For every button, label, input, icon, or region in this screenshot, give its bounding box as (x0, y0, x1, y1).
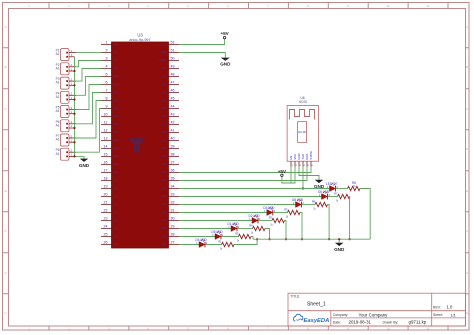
wire R6 to GND bus (360, 189, 370, 240)
U3 pin 21 (101, 201, 119, 207)
wire LED GND bus (253, 238, 370, 240)
U3 pin 34 (161, 185, 179, 191)
svg-text:25: 25 (104, 233, 108, 237)
U3 pin 24 (101, 225, 119, 231)
svg-text:D1 LED: D1 LED (228, 222, 240, 226)
connector P6 (56, 120, 76, 132)
svg-text:19: 19 (104, 185, 108, 189)
svg-text:D6 LED: D6 LED (318, 190, 330, 194)
svg-text:8: 8 (106, 97, 108, 101)
junction bus GND (338, 238, 340, 240)
svg-text:EasyEDA: EasyEDA (304, 318, 330, 324)
wire U3 pin 52 to +5V (179, 39, 225, 45)
wire U3 pin 32 to D8 (179, 204, 296, 206)
wire R2 to GND bus (285, 221, 287, 240)
wire P5.2 to U3 pin 6 (76, 85, 101, 110)
svg-text:44: 44 (171, 105, 175, 109)
svg-text:PE0: PE0 (113, 43, 119, 47)
svg-text:A: A (5, 25, 7, 29)
svg-text:PK4: PK4 (161, 163, 167, 167)
U6 pin 1 EN (289, 156, 294, 167)
U3 pin 32 (161, 201, 179, 207)
wire P6.2 to U3 pin 7 (76, 93, 101, 124)
resistor R7 (334, 191, 350, 202)
resistor R2 (269, 215, 285, 226)
svg-text:PH3: PH3 (113, 107, 119, 111)
U3 pin 39 (161, 145, 179, 151)
module U6 HC05 body (287, 106, 319, 162)
svg-text:PK3: PK3 (161, 155, 167, 159)
svg-text:18: 18 (104, 177, 108, 181)
svg-text:49: 49 (171, 65, 175, 69)
svg-text:51: 51 (171, 49, 175, 53)
svg-text:HC-05: HC-05 (298, 130, 306, 134)
resistor R4 (249, 223, 265, 234)
wire D3 to R3 (273, 212, 288, 214)
wire U3 pin 34 to D7 (179, 188, 330, 190)
U6 designator label (299, 96, 307, 104)
svg-text:PC1: PC1 (113, 195, 119, 199)
svg-text:9: 9 (106, 105, 108, 109)
U3 pin 33 (161, 193, 179, 199)
svg-text:PC7: PC7 (113, 243, 119, 247)
svg-text:17: 17 (104, 169, 108, 173)
svg-text:D8 LED: D8 LED (292, 198, 304, 202)
LED D8 (292, 198, 305, 207)
svg-text:PK5: PK5 (161, 171, 167, 175)
U3 pin 11 (101, 121, 119, 127)
svg-text:23: 23 (104, 217, 108, 221)
U3 pin 36 (161, 169, 179, 175)
svg-text:PA2: PA2 (162, 243, 168, 247)
U3 pin 17 (101, 169, 119, 175)
svg-text:26: 26 (104, 241, 108, 245)
svg-text:PD0: PD0 (161, 195, 167, 199)
svg-text:PC2: PC2 (113, 203, 119, 207)
svg-text:PK6: PK6 (161, 179, 167, 183)
svg-text:Sheet:: Sheet: (433, 313, 443, 317)
svg-text:Your Company: Your Company (359, 312, 389, 317)
svg-text:U3: U3 (137, 32, 143, 37)
svg-text:PH4: PH4 (113, 115, 119, 119)
svg-text:A1: A1 (56, 138, 60, 142)
op IC U3 body (112, 42, 169, 248)
connector P3 (56, 77, 76, 89)
U3 pin 52 (161, 41, 179, 47)
svg-text:R4: R4 (249, 223, 253, 227)
wire R4 to GND bus (265, 229, 270, 240)
svg-text:10: 10 (104, 113, 108, 117)
wire D4 to R1 (205, 244, 222, 246)
U3 pin 38 (161, 153, 179, 159)
U3 pin 16 (101, 161, 119, 167)
svg-text:TITLE:: TITLE: (291, 295, 301, 299)
junction connector bus y=71 (73, 70, 75, 72)
svg-text:REV:: REV: (433, 305, 441, 309)
U3 pin 4 (101, 65, 119, 71)
svg-text:PB5: PB5 (113, 147, 119, 151)
junction bus x=257 (256, 238, 258, 240)
U3 pin 41 (161, 129, 179, 135)
svg-text:2019-08-31: 2019-08-31 (349, 320, 372, 325)
svg-text:PC4: PC4 (113, 219, 119, 223)
svg-text:33: 33 (171, 193, 175, 197)
svg-text:PF0: PF0 (161, 67, 167, 71)
svg-text:35: 35 (171, 177, 175, 181)
svg-text:H: H (4, 311, 6, 315)
svg-text:R3: R3 (284, 207, 288, 211)
svg-text:48: 48 (171, 73, 175, 77)
svg-text:15: 15 (104, 153, 108, 157)
svg-text:PK7: PK7 (161, 187, 167, 191)
U3 pin 30 (161, 217, 179, 223)
svg-text:STATE: STATE (309, 151, 313, 160)
svg-text:21: 21 (104, 201, 108, 205)
svg-text:PH0: PH0 (113, 91, 119, 95)
svg-text:A1: A1 (56, 152, 60, 156)
wire D8 to R8 (302, 204, 316, 206)
svg-text:F: F (5, 229, 7, 233)
wire R3 to GND bus (300, 213, 302, 240)
svg-text:PK2: PK2 (161, 147, 167, 151)
junction bus x=329 (328, 238, 330, 240)
U3 pin 1 (101, 41, 119, 47)
svg-text:D4 LED: D4 LED (196, 238, 208, 242)
svg-text:A: A (466, 25, 468, 29)
svg-text:PC6: PC6 (113, 235, 119, 239)
U6 pin 2 VCC (293, 154, 298, 167)
svg-text:PK1: PK1 (161, 139, 167, 143)
svg-text:VCC: VCC (161, 43, 168, 47)
U3 pin 31 (161, 209, 179, 215)
U3 designator label (129, 32, 150, 41)
svg-text:GND: GND (220, 61, 231, 66)
U3 pin 5 (101, 73, 119, 79)
U3 pin 14 (101, 145, 119, 151)
U3 pin 8 (101, 97, 119, 103)
U3 pin 20 (101, 193, 119, 199)
wire U3 pin 35 to U6 RXD (179, 167, 307, 181)
svg-text:Company:: Company: (333, 313, 349, 317)
connector P8 (56, 148, 76, 160)
wire GND bus of connectors (75, 57, 85, 159)
wire U6 GND to ground (299, 167, 319, 180)
svg-text:PE4: PE4 (113, 75, 119, 79)
junction bus x=270 (268, 238, 270, 240)
resistor R8 (312, 199, 328, 210)
svg-text:31: 31 (171, 209, 175, 213)
U3 pin 13 (101, 137, 119, 143)
junction connector bus y=114 (73, 113, 75, 115)
svg-text:PH6: PH6 (113, 131, 119, 135)
svg-text:43: 43 (171, 113, 175, 117)
wire D5 to R5 (221, 236, 239, 238)
svg-text:E: E (466, 189, 468, 193)
U3 pin 45 (161, 97, 179, 103)
svg-text:47: 47 (171, 81, 175, 85)
svg-text:PH5: PH5 (113, 123, 119, 127)
svg-text:11: 11 (427, 4, 430, 8)
U3 pin 47 (161, 81, 179, 87)
svg-text:R8: R8 (312, 199, 316, 203)
LED D5 (212, 230, 225, 239)
ground flag bottom right (334, 243, 345, 252)
svg-text:PE1: PE1 (113, 51, 119, 55)
svg-text:PA0: PA0 (162, 227, 168, 231)
U3 pin 40 (161, 137, 179, 143)
junction connector bus y=99 (73, 98, 75, 100)
wire +5V to U6 VCC (282, 167, 295, 184)
junction bus x=286 (285, 238, 287, 240)
svg-text:24: 24 (104, 225, 108, 229)
U3 pin 10 (101, 113, 119, 119)
wire R5 to GND bus jog (251, 237, 253, 240)
svg-text:PF1: PF1 (161, 75, 167, 79)
svg-text:PF3: PF3 (161, 91, 167, 95)
svg-text:A1: A1 (56, 52, 60, 56)
wire U3 pin 29 to D1 (179, 228, 231, 230)
svg-text:2: 2 (106, 49, 108, 53)
svg-text:B: B (5, 65, 7, 69)
U3 pin 23 (101, 217, 119, 223)
svg-text:R7: R7 (334, 191, 338, 195)
svg-text:PB7: PB7 (113, 163, 119, 167)
connector P5 (56, 106, 76, 118)
svg-text:10: 10 (386, 327, 390, 331)
LED D7 (326, 182, 339, 191)
junction connector bus y=142 (73, 141, 75, 143)
svg-text:D2 LED: D2 LED (249, 214, 261, 218)
junction connector bus y=85 (73, 84, 75, 86)
U6 pin 5 RXD (305, 154, 310, 167)
+5V net flag top (220, 31, 229, 39)
svg-text:G: G (4, 271, 6, 275)
resistor R6 (348, 181, 361, 191)
svg-text:34: 34 (171, 185, 175, 189)
svg-text:1.0: 1.0 (447, 305, 453, 310)
svg-text:PH1: PH1 (113, 99, 119, 103)
svg-text:22: 22 (104, 209, 108, 213)
svg-text:HC05: HC05 (299, 100, 307, 104)
U3 pin 7 (101, 89, 119, 95)
svg-text:PC5: PC5 (113, 227, 119, 231)
svg-text:A1: A1 (56, 109, 60, 113)
svg-text:R5: R5 (235, 231, 239, 235)
svg-text:+5V: +5V (220, 31, 229, 36)
wire P1.2 to U3 pin 2 (76, 52, 101, 54)
svg-text:PB6: PB6 (113, 155, 119, 159)
svg-text:3: 3 (106, 57, 108, 61)
svg-text:10: 10 (386, 4, 390, 8)
svg-text:PJ1: PJ1 (113, 179, 119, 183)
svg-text:42: 42 (171, 121, 175, 125)
svg-text:PF6: PF6 (161, 115, 167, 119)
U3 pin 9 (101, 105, 119, 111)
svg-text:AREF: AREF (159, 59, 167, 63)
U3 pin 3 (101, 57, 119, 63)
resistor R5 (235, 231, 251, 242)
wire U3 pin 28 to D5 (179, 236, 215, 238)
svg-text:32: 32 (171, 201, 175, 205)
svg-text:D5 LED: D5 LED (212, 230, 224, 234)
U3 pin 22 (101, 209, 119, 215)
svg-text:46: 46 (171, 89, 175, 93)
ground flag at U6 (314, 180, 325, 189)
junction connector bus y=156 (73, 155, 75, 157)
svg-text:38: 38 (171, 153, 175, 157)
U3 pin 43 (161, 113, 179, 119)
svg-text:B: B (466, 65, 468, 69)
U3 pin 48 (161, 73, 179, 79)
svg-text:H: H (466, 311, 468, 315)
wire P8.2 to U3 pin 9 (76, 109, 101, 153)
wire U3 pin 30 to D2 (179, 220, 252, 222)
ground flag top right (220, 58, 231, 67)
svg-text:PF4: PF4 (161, 99, 167, 103)
svg-text:C: C (466, 107, 468, 111)
svg-text:Sheet_1: Sheet_1 (307, 302, 326, 308)
svg-text:PD1: PD1 (161, 203, 167, 207)
junction connector bus y=128 (73, 127, 75, 129)
U3 pin 6 (101, 81, 119, 87)
svg-text:14: 14 (104, 145, 108, 149)
EasyEDA logo (294, 314, 330, 324)
svg-text:A1: A1 (56, 123, 60, 127)
svg-text:PF2: PF2 (161, 83, 167, 87)
svg-text:PF7: PF7 (161, 123, 167, 127)
title block (288, 293, 466, 326)
svg-text:PE5: PE5 (113, 83, 119, 87)
svg-text:PB4: PB4 (113, 139, 119, 143)
wire GND stub of bus (338, 239, 340, 243)
svg-text:52: 52 (171, 41, 175, 45)
svg-text:13: 13 (104, 137, 108, 141)
svg-text:Drawn By:: Drawn By: (383, 320, 399, 324)
svg-text:45: 45 (171, 97, 175, 101)
U3 pin 2 (101, 49, 119, 55)
wire P2.2 to U3 pin 3 (76, 61, 101, 67)
svg-text:D: D (4, 147, 6, 151)
svg-text:12: 12 (104, 129, 108, 133)
svg-text:16: 16 (104, 161, 108, 165)
svg-text:39: 39 (171, 145, 175, 149)
svg-text:37: 37 (171, 161, 175, 165)
svg-text:LED D7: LED D7 (326, 182, 337, 186)
svg-text:GND: GND (79, 163, 90, 168)
U3 pin 19 (101, 185, 119, 191)
U3 pin 50 (159, 57, 179, 63)
svg-text:28: 28 (171, 233, 175, 237)
U3 pin 15 (101, 153, 119, 159)
wire U3 pin 51 to GND (179, 53, 225, 58)
U3 pin 49 (161, 65, 179, 71)
svg-text:6: 6 (106, 81, 108, 85)
connector P7 (56, 134, 76, 146)
U6 pin 4 TXD (301, 154, 306, 167)
svg-text:30: 30 (171, 217, 175, 221)
svg-text:PF5: PF5 (161, 107, 167, 111)
svg-text:36: 36 (171, 169, 175, 173)
connector P2 (56, 63, 76, 75)
U3 pin 44 (161, 105, 179, 111)
junction bus x=302 (301, 238, 303, 240)
U3 pin 18 (101, 177, 119, 183)
junction TXD node (302, 187, 304, 189)
svg-text:A1: A1 (56, 81, 60, 85)
U3 pin 27 (162, 241, 179, 247)
svg-text:PC3: PC3 (113, 211, 119, 215)
LED D3 (263, 206, 276, 215)
svg-text:7: 7 (106, 89, 108, 93)
svg-text:GND: GND (160, 51, 168, 55)
svg-text:PD2: PD2 (161, 211, 167, 215)
svg-text:50: 50 (171, 57, 175, 61)
svg-text:R2: R2 (269, 215, 273, 219)
LED D6 (318, 190, 331, 199)
wire P4.2 to U3 pin 5 (76, 77, 101, 96)
svg-text:G: G (466, 271, 468, 275)
svg-text:27: 27 (171, 241, 175, 245)
resistor R3 (284, 207, 300, 218)
wire P3.2 to U3 pin 4 (76, 69, 101, 82)
svg-text:5: 5 (106, 73, 108, 77)
wire U6 TXD drop to node (302, 167, 304, 189)
svg-text:anoc-9p-997: anoc-9p-997 (129, 38, 150, 42)
wire D6 to R7 (328, 196, 338, 198)
svg-text:PE2: PE2 (113, 59, 119, 63)
connector P4 (56, 91, 76, 103)
U3 pin 26 (101, 241, 119, 247)
wire D7 to R6 (336, 188, 348, 190)
wire R7 to GND bus (349, 197, 351, 240)
svg-text:D: D (466, 147, 468, 151)
LED D1 (228, 222, 241, 231)
svg-text:GND: GND (334, 247, 345, 252)
U3 pin 37 (161, 161, 179, 167)
svg-text:PJ0: PJ0 (113, 171, 119, 175)
resistor R1 (218, 239, 234, 250)
svg-text:PA1: PA1 (162, 235, 168, 239)
U6 pin 6 STATE (309, 151, 314, 167)
U3 pin 12 (101, 129, 119, 135)
svg-text:11: 11 (104, 121, 108, 125)
wire U6 EN stub (290, 167, 292, 184)
LED D4 (196, 238, 209, 247)
svg-text:PC0: PC0 (113, 187, 119, 191)
svg-text:E: E (5, 189, 7, 193)
svg-text:A1: A1 (56, 95, 60, 99)
svg-text:4: 4 (106, 65, 108, 69)
wire U3 pin 31 to D3 (179, 212, 267, 214)
U3 pin 25 (101, 233, 119, 239)
wire P7.2 to U3 pin 8 (76, 101, 101, 139)
wire D1 to R4 (237, 228, 253, 230)
LED D2 (249, 214, 262, 223)
svg-text:PD3: PD3 (161, 219, 167, 223)
wire U3 pin 36 to U6 STATE (179, 167, 311, 173)
svg-text:20: 20 (104, 193, 108, 197)
svg-text:1: 1 (106, 41, 108, 45)
svg-text:11: 11 (427, 327, 430, 331)
U3 pin 35 (161, 177, 179, 183)
wire R8 to GND bus (328, 205, 330, 240)
svg-text:C: C (4, 107, 6, 111)
svg-text:41: 41 (171, 129, 175, 133)
wire U3 pin 33 to D6 (179, 196, 322, 198)
U6 pin 3 GND (297, 153, 302, 166)
wire U3 pin 27 to D4 (179, 244, 199, 246)
wire D2 to R2 (258, 220, 272, 222)
